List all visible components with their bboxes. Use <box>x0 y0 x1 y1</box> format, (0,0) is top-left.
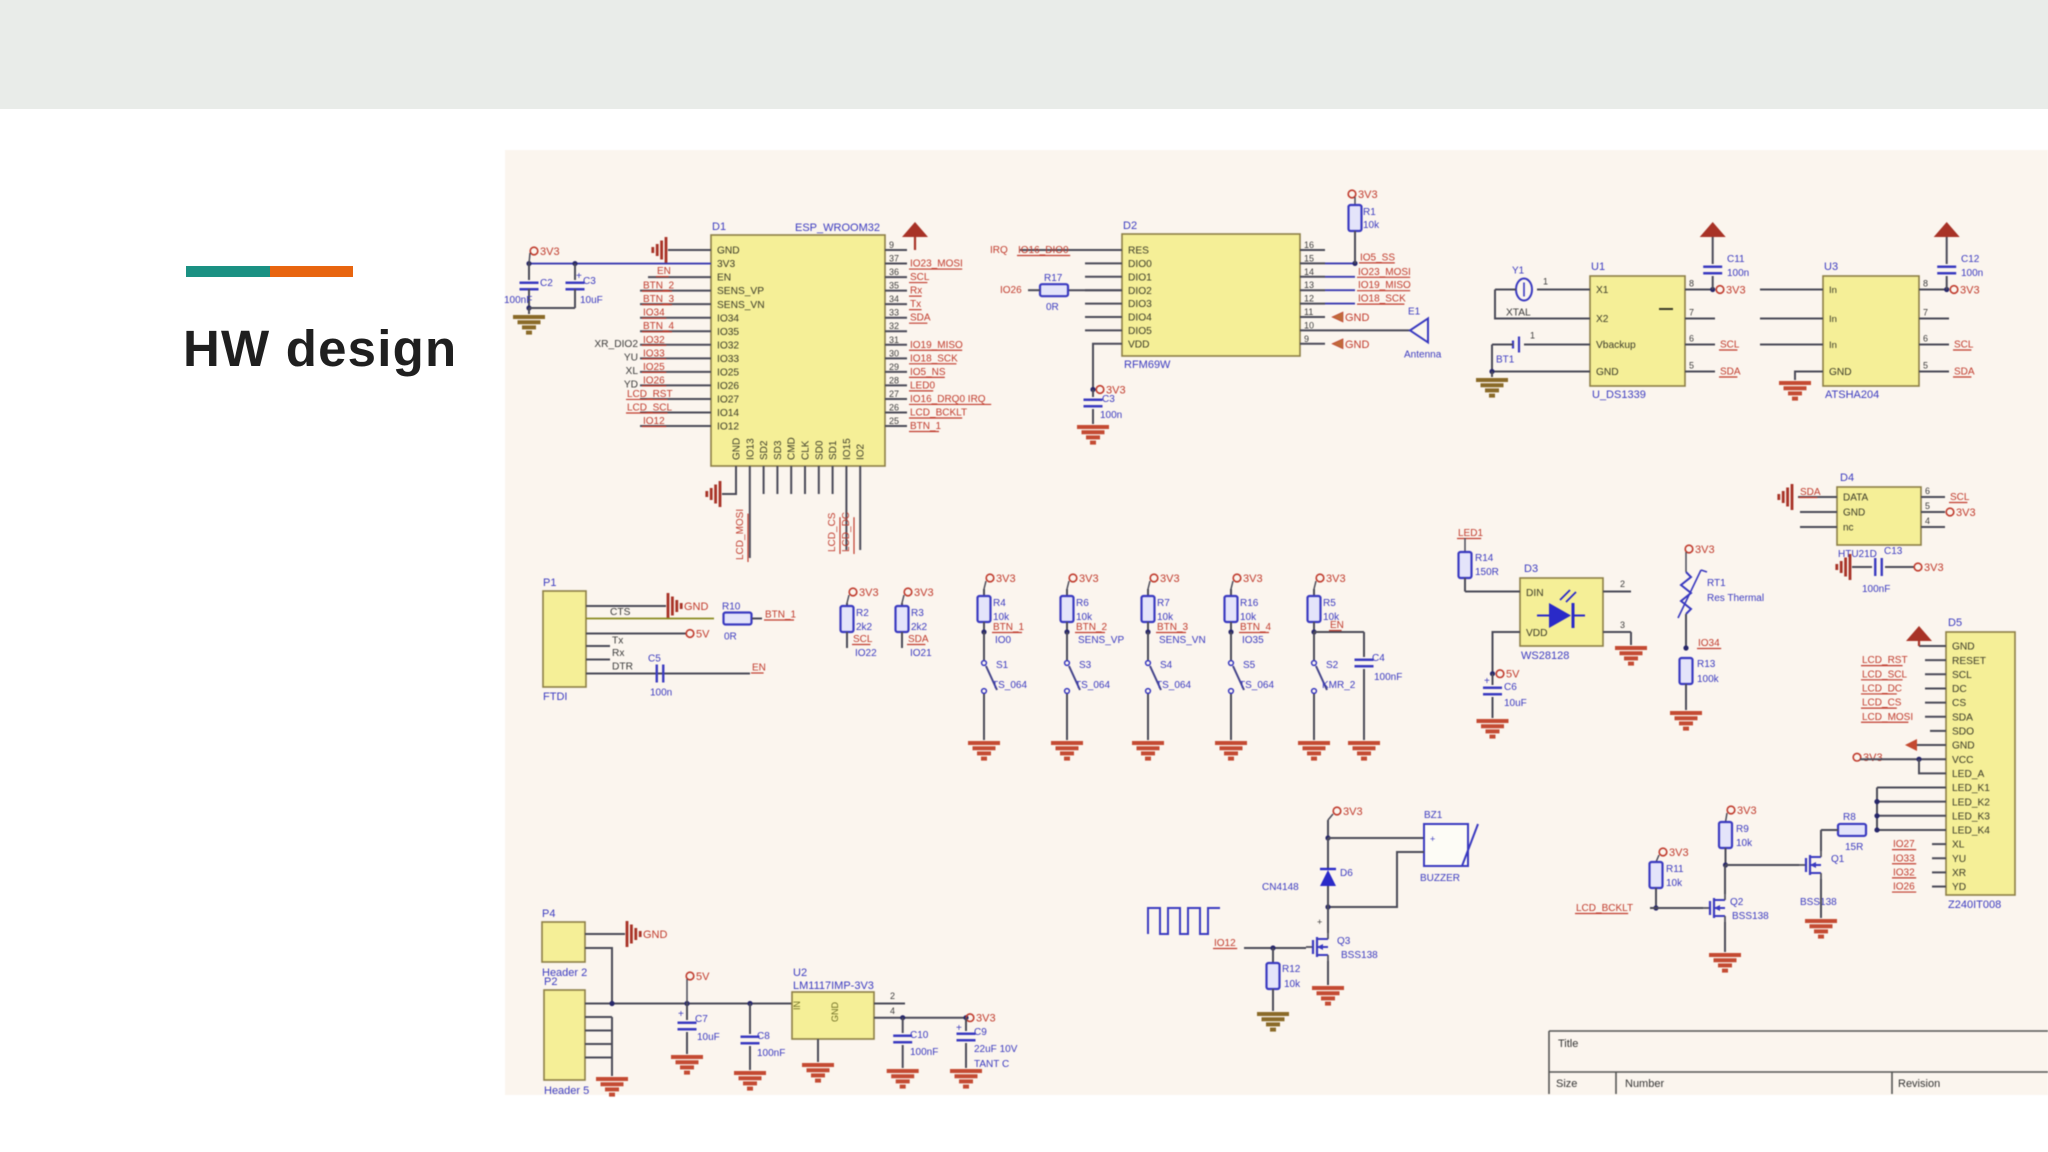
svg-text:LCD_DC: LCD_DC <box>841 512 852 552</box>
svg-text:IO14: IO14 <box>717 408 739 419</box>
svg-text:28: 28 <box>889 375 899 385</box>
svg-text:15R: 15R <box>1845 842 1863 853</box>
svg-text:BZ1: BZ1 <box>1424 810 1443 821</box>
svg-text:DATA: DATA <box>1843 493 1869 504</box>
svg-text:GND: GND <box>732 438 743 460</box>
svg-text:Q3: Q3 <box>1337 936 1351 947</box>
svg-text:LED1: LED1 <box>1458 528 1483 539</box>
svg-text:X2: X2 <box>1596 314 1609 325</box>
svg-text:VCC: VCC <box>1952 755 1974 766</box>
svg-text:29: 29 <box>889 362 899 372</box>
svg-text:BTN_2: BTN_2 <box>643 281 675 292</box>
svg-text:LCD_BCKLT: LCD_BCKLT <box>910 407 967 418</box>
svg-text:BTN_3: BTN_3 <box>643 294 675 305</box>
svg-text:30: 30 <box>889 348 899 358</box>
svg-text:Vbackup: Vbackup <box>1596 340 1636 351</box>
svg-text:X1: X1 <box>1596 285 1609 296</box>
svg-text:ATSHA204: ATSHA204 <box>1825 389 1879 401</box>
svg-text:RFM69W: RFM69W <box>1124 359 1171 371</box>
svg-text:IO26: IO26 <box>1000 285 1022 296</box>
svg-text:10uF: 10uF <box>1504 698 1527 709</box>
svg-text:CN4148: CN4148 <box>1262 882 1299 893</box>
svg-text:IO12: IO12 <box>1214 938 1236 949</box>
svg-text:14: 14 <box>1304 267 1314 277</box>
svg-text:YU: YU <box>624 352 638 363</box>
svg-text:SDO: SDO <box>1952 727 1974 738</box>
svg-text:XL: XL <box>626 366 639 377</box>
svg-text:SD1: SD1 <box>828 440 839 460</box>
svg-text:VDD: VDD <box>1128 339 1150 350</box>
svg-text:IO22: IO22 <box>855 648 877 659</box>
svg-text:3V3: 3V3 <box>1358 189 1378 201</box>
svg-text:GND: GND <box>1345 312 1370 324</box>
svg-text:TS_064: TS_064 <box>992 680 1027 691</box>
svg-text:C3: C3 <box>1102 394 1115 405</box>
svg-text:SDA: SDA <box>1720 367 1741 378</box>
svg-text:C6: C6 <box>1504 682 1517 693</box>
svg-text:Rx: Rx <box>612 648 624 659</box>
svg-text:Tx: Tx <box>910 299 921 310</box>
svg-text:3V3: 3V3 <box>1243 573 1263 585</box>
svg-text:R1: R1 <box>1363 207 1376 218</box>
svg-text:TS_064: TS_064 <box>1156 680 1191 691</box>
svg-text:IO32: IO32 <box>643 335 665 346</box>
svg-text:3V3: 3V3 <box>1924 562 1944 574</box>
svg-text:IO33: IO33 <box>717 354 739 365</box>
svg-text:10uF: 10uF <box>697 1032 720 1043</box>
svg-text:LED_K2: LED_K2 <box>1952 797 1990 808</box>
svg-text:XL: XL <box>1952 840 1965 851</box>
svg-text:IO26: IO26 <box>1893 882 1915 893</box>
svg-text:IO12: IO12 <box>643 416 665 427</box>
svg-text:27: 27 <box>889 389 899 399</box>
svg-text:5: 5 <box>1923 361 1928 371</box>
svg-text:100n: 100n <box>650 688 672 699</box>
svg-text:7: 7 <box>1689 308 1694 318</box>
svg-text:IO23_MOSI: IO23_MOSI <box>910 259 963 270</box>
svg-text:C10: C10 <box>910 1030 929 1041</box>
svg-text:GND: GND <box>643 929 668 941</box>
svg-text:10k: 10k <box>1363 220 1380 231</box>
svg-text:10k: 10k <box>1736 838 1753 849</box>
svg-text:3V3: 3V3 <box>1343 806 1363 818</box>
svg-text:LED_K3: LED_K3 <box>1952 811 1990 822</box>
svg-text:R16: R16 <box>1240 598 1259 609</box>
svg-text:9: 9 <box>1304 334 1309 344</box>
svg-text:+: + <box>576 271 582 282</box>
svg-text:S3: S3 <box>1079 660 1092 671</box>
svg-text:LCD_SCL: LCD_SCL <box>627 402 672 413</box>
svg-text:RT1: RT1 <box>1707 578 1726 589</box>
svg-text:IO35: IO35 <box>717 327 739 338</box>
svg-text:IO33: IO33 <box>1893 853 1915 864</box>
svg-text:34: 34 <box>889 294 899 304</box>
svg-text:S2: S2 <box>1326 660 1339 671</box>
svg-text:FTDI: FTDI <box>543 691 567 703</box>
svg-text:36: 36 <box>889 267 899 277</box>
svg-text:13: 13 <box>1304 280 1314 290</box>
svg-text:DIO3: DIO3 <box>1128 299 1152 310</box>
svg-text:IO19_MISO: IO19_MISO <box>910 340 963 351</box>
svg-text:22uF 10V: 22uF 10V <box>974 1044 1018 1055</box>
svg-text:YD: YD <box>1952 882 1966 893</box>
svg-text:IO16_DRQ0 IRQ: IO16_DRQ0 IRQ <box>910 394 986 405</box>
svg-text:LCD_DC: LCD_DC <box>1862 683 1902 694</box>
svg-text:DIO2: DIO2 <box>1128 286 1152 297</box>
svg-text:R17: R17 <box>1044 273 1063 284</box>
svg-text:SDA: SDA <box>1952 712 1973 723</box>
svg-text:8: 8 <box>1923 279 1928 289</box>
svg-text:GND: GND <box>1952 741 1975 752</box>
svg-text:C5: C5 <box>648 654 661 665</box>
svg-text:Q1: Q1 <box>1831 854 1845 865</box>
svg-text:R2: R2 <box>856 608 869 619</box>
svg-text:D2: D2 <box>1123 220 1137 232</box>
svg-text:+: + <box>1484 676 1490 687</box>
svg-text:DC: DC <box>1952 684 1967 695</box>
svg-text:CTS: CTS <box>610 607 631 618</box>
svg-text:LED_K4: LED_K4 <box>1952 826 1990 837</box>
svg-text:SDA: SDA <box>910 313 931 324</box>
svg-text:IO33: IO33 <box>643 348 665 359</box>
svg-text:SD3: SD3 <box>773 440 784 460</box>
svg-text:SDA: SDA <box>1954 367 1975 378</box>
svg-text:WS28128: WS28128 <box>1521 650 1569 662</box>
svg-text:3V3: 3V3 <box>996 573 1016 585</box>
svg-text:R14: R14 <box>1475 553 1494 564</box>
svg-text:LCD_MOSI: LCD_MOSI <box>1862 712 1913 723</box>
svg-text:IO27: IO27 <box>717 395 739 406</box>
svg-text:LCD_RST: LCD_RST <box>1862 655 1908 666</box>
svg-text:10: 10 <box>1304 320 1314 330</box>
svg-text:D4: D4 <box>1840 472 1854 484</box>
svg-text:BTN_3: BTN_3 <box>1157 622 1189 633</box>
svg-text:IO15: IO15 <box>842 438 853 460</box>
svg-text:IO32: IO32 <box>717 340 739 351</box>
svg-text:100nF: 100nF <box>1374 672 1402 683</box>
svg-text:LCD_MOSI: LCD_MOSI <box>735 509 746 560</box>
svg-text:GND: GND <box>1843 508 1865 519</box>
svg-text:VDD: VDD <box>1526 628 1548 639</box>
svg-text:3V3: 3V3 <box>1079 573 1099 585</box>
svg-text:100nF: 100nF <box>504 295 532 306</box>
svg-text:DIO5: DIO5 <box>1128 326 1152 337</box>
svg-text:16: 16 <box>1304 240 1314 250</box>
svg-text:EN: EN <box>752 663 766 674</box>
svg-text:35: 35 <box>889 281 899 291</box>
svg-text:2k2: 2k2 <box>856 622 873 633</box>
svg-text:100nF: 100nF <box>1862 584 1890 595</box>
svg-text:R7: R7 <box>1157 598 1170 609</box>
svg-text:GND: GND <box>1596 367 1619 378</box>
svg-text:150R: 150R <box>1475 567 1499 578</box>
svg-text:2: 2 <box>890 991 895 1001</box>
svg-text:IO25: IO25 <box>717 367 739 378</box>
svg-text:CLK: CLK <box>801 440 812 460</box>
svg-text:DTR: DTR <box>612 662 633 673</box>
svg-text:3V3: 3V3 <box>914 587 934 599</box>
svg-text:R6: R6 <box>1076 598 1089 609</box>
svg-text:GND: GND <box>717 246 740 257</box>
svg-text:5V: 5V <box>696 629 710 641</box>
svg-text:C11: C11 <box>1727 254 1745 265</box>
svg-text:nc: nc <box>1843 523 1854 534</box>
svg-text:EN: EN <box>717 273 731 284</box>
svg-text:S4: S4 <box>1160 660 1173 671</box>
svg-text:6: 6 <box>1923 334 1928 344</box>
svg-text:BSS138: BSS138 <box>1341 950 1378 961</box>
svg-text:SENS_VN: SENS_VN <box>717 300 765 311</box>
svg-text:IO23_MOSI: IO23_MOSI <box>1358 267 1411 278</box>
svg-text:EN: EN <box>1330 620 1344 631</box>
svg-text:+: + <box>1317 917 1322 927</box>
svg-text:10uF: 10uF <box>580 295 603 306</box>
svg-text:R9: R9 <box>1736 824 1749 835</box>
svg-text:LED_K1: LED_K1 <box>1952 783 1990 794</box>
svg-text:U2: U2 <box>793 967 807 979</box>
svg-text:SD0: SD0 <box>814 440 825 460</box>
svg-text:GND: GND <box>830 1002 840 1023</box>
svg-text:D5: D5 <box>1948 617 1962 629</box>
svg-text:100n: 100n <box>1961 268 1983 279</box>
svg-text:LCD_CS: LCD_CS <box>827 512 838 552</box>
svg-text:IO27: IO27 <box>1893 839 1915 850</box>
svg-text:R3: R3 <box>911 608 924 619</box>
svg-text:DIN: DIN <box>1526 588 1544 599</box>
svg-text:E1: E1 <box>1408 306 1421 317</box>
svg-text:+: + <box>1430 834 1435 844</box>
svg-text:IO13: IO13 <box>745 438 756 460</box>
svg-text:BTN_1: BTN_1 <box>765 610 797 621</box>
svg-text:U3: U3 <box>1824 261 1838 273</box>
svg-text:6: 6 <box>1689 334 1694 344</box>
svg-text:5: 5 <box>1689 361 1694 371</box>
svg-text:5V: 5V <box>1506 669 1520 681</box>
svg-text:3V3: 3V3 <box>540 246 560 258</box>
svg-text:37: 37 <box>889 254 899 264</box>
svg-text:IO32: IO32 <box>1893 867 1915 878</box>
svg-text:IO5_SS: IO5_SS <box>1360 252 1395 263</box>
svg-text:U_DS1339: U_DS1339 <box>1592 389 1646 401</box>
svg-text:BTN_2: BTN_2 <box>1076 622 1108 633</box>
svg-text:7: 7 <box>1923 308 1928 318</box>
svg-text:GND: GND <box>684 601 709 613</box>
svg-text:SDA: SDA <box>1800 487 1821 498</box>
svg-text:R8: R8 <box>1843 812 1856 823</box>
svg-text:IRQ: IRQ <box>990 245 1008 256</box>
svg-text:In: In <box>1829 340 1837 351</box>
svg-text:3V3: 3V3 <box>1669 847 1689 859</box>
svg-text:IN: IN <box>792 1001 802 1010</box>
svg-text:4: 4 <box>890 1006 895 1016</box>
svg-text:IO5_NS: IO5_NS <box>910 367 946 378</box>
svg-text:Antenna: Antenna <box>1404 349 1442 360</box>
svg-text:DIO1: DIO1 <box>1128 272 1152 283</box>
svg-text:3V3: 3V3 <box>1956 507 1976 519</box>
svg-text:D3: D3 <box>1524 563 1538 575</box>
svg-text:HTU21D: HTU21D <box>1838 549 1877 560</box>
svg-text:LM1117IMP-3V3: LM1117IMP-3V3 <box>793 980 874 992</box>
svg-text:3V3: 3V3 <box>859 587 879 599</box>
svg-text:TS_064: TS_064 <box>1075 680 1110 691</box>
svg-text:P1: P1 <box>543 577 556 589</box>
svg-text:IO2: IO2 <box>856 443 867 460</box>
svg-text:LCD_SCL: LCD_SCL <box>1862 669 1907 680</box>
svg-text:SENS_VP: SENS_VP <box>1078 635 1124 646</box>
svg-text:Number: Number <box>1625 1078 1664 1090</box>
svg-text:TANT C: TANT C <box>974 1059 1009 1070</box>
svg-text:SCL: SCL <box>1950 492 1970 503</box>
svg-text:3V3: 3V3 <box>717 259 735 270</box>
svg-text:C4: C4 <box>1372 653 1385 664</box>
svg-text:DIO4: DIO4 <box>1128 313 1152 324</box>
svg-text:SCL: SCL <box>853 634 873 645</box>
svg-text:S5: S5 <box>1243 660 1256 671</box>
svg-text:IO18_SCK: IO18_SCK <box>910 353 958 364</box>
svg-text:IO34: IO34 <box>1698 638 1720 649</box>
svg-text:100k: 100k <box>1697 674 1720 685</box>
svg-text:100n: 100n <box>1727 268 1749 279</box>
svg-text:3V3: 3V3 <box>1695 544 1715 556</box>
svg-text:0R: 0R <box>724 632 737 643</box>
svg-text:10k: 10k <box>1666 878 1683 889</box>
svg-text:In: In <box>1829 285 1837 296</box>
svg-text:U1: U1 <box>1591 261 1605 273</box>
svg-text:GND: GND <box>1952 642 1975 653</box>
svg-text:IO0: IO0 <box>995 635 1012 646</box>
svg-text:R10: R10 <box>722 602 741 613</box>
svg-text:IO34: IO34 <box>643 308 665 319</box>
svg-text:XR: XR <box>1952 868 1966 879</box>
svg-text:IO25: IO25 <box>643 362 665 373</box>
svg-text:R13: R13 <box>1697 659 1716 670</box>
svg-text:Res Thermal: Res Thermal <box>1707 593 1764 604</box>
svg-text:SDA: SDA <box>908 634 929 645</box>
svg-text:R12: R12 <box>1282 964 1301 975</box>
svg-text:3V3: 3V3 <box>1960 285 1980 297</box>
svg-text:IO26: IO26 <box>717 381 739 392</box>
svg-text:BT1: BT1 <box>1496 355 1515 366</box>
svg-text:LCD_RST: LCD_RST <box>627 389 673 400</box>
svg-text:1: 1 <box>1543 277 1548 287</box>
svg-text:15: 15 <box>1304 253 1314 263</box>
svg-text:BTN_1: BTN_1 <box>993 622 1025 633</box>
svg-text:BTN_4: BTN_4 <box>1240 622 1272 633</box>
svg-text:GND: GND <box>1829 367 1852 378</box>
svg-text:R4: R4 <box>993 598 1006 609</box>
svg-text:C8: C8 <box>757 1031 770 1042</box>
svg-text:C12: C12 <box>1961 254 1980 265</box>
svg-text:5V: 5V <box>696 971 710 983</box>
svg-text:S1: S1 <box>996 660 1009 671</box>
svg-text:Tx: Tx <box>612 636 623 647</box>
svg-text:12: 12 <box>1304 294 1314 304</box>
svg-text:YU: YU <box>1952 854 1966 865</box>
svg-text:100nF: 100nF <box>757 1048 785 1059</box>
svg-text:+: + <box>956 1023 962 1034</box>
svg-text:1: 1 <box>1530 331 1535 341</box>
svg-text:9: 9 <box>889 240 894 250</box>
svg-text:IO21: IO21 <box>910 648 932 659</box>
svg-text:3V3: 3V3 <box>1326 573 1346 585</box>
svg-text:P4: P4 <box>542 908 555 920</box>
svg-text:LED_A: LED_A <box>1952 769 1984 780</box>
svg-text:IO12: IO12 <box>717 422 739 433</box>
svg-text:6: 6 <box>1925 486 1930 496</box>
svg-text:Revision: Revision <box>1898 1078 1940 1090</box>
svg-text:3V3: 3V3 <box>976 1013 996 1025</box>
svg-text:Title: Title <box>1558 1038 1578 1050</box>
svg-text:Header 5: Header 5 <box>544 1085 589 1097</box>
svg-text:IO19_MISO: IO19_MISO <box>1358 280 1411 291</box>
svg-text:100n: 100n <box>1100 410 1122 421</box>
svg-text:25: 25 <box>889 416 899 426</box>
svg-text:C3: C3 <box>583 276 596 287</box>
svg-text:R11: R11 <box>1666 864 1684 875</box>
svg-text:LCD_CS: LCD_CS <box>1862 698 1902 709</box>
svg-text:D1: D1 <box>712 221 726 233</box>
svg-text:0R: 0R <box>1046 302 1059 313</box>
svg-text:CMD: CMD <box>787 437 798 460</box>
svg-text:3V3: 3V3 <box>1737 805 1757 817</box>
svg-text:SCL: SCL <box>1720 340 1740 351</box>
svg-text:26: 26 <box>889 402 899 412</box>
svg-text:SCL: SCL <box>910 272 930 283</box>
svg-text:100nF: 100nF <box>910 1047 938 1058</box>
svg-text:XR_DIO2: XR_DIO2 <box>594 339 638 350</box>
svg-text:RESET: RESET <box>1952 656 1986 667</box>
svg-text:D6: D6 <box>1340 868 1353 879</box>
svg-text:P2: P2 <box>544 976 557 988</box>
svg-text:BSS138: BSS138 <box>1800 897 1837 908</box>
svg-text:Y1: Y1 <box>1512 266 1525 277</box>
svg-text:5: 5 <box>1925 501 1930 511</box>
svg-text:CS: CS <box>1952 698 1966 709</box>
svg-text:XTAL: XTAL <box>1506 308 1531 319</box>
svg-text:3V3: 3V3 <box>1160 573 1180 585</box>
svg-text:2: 2 <box>1620 579 1625 589</box>
svg-text:C13: C13 <box>1884 546 1903 557</box>
svg-text:IO34: IO34 <box>717 313 739 324</box>
svg-text:Rx: Rx <box>910 286 922 297</box>
svg-text:IO16_DIO0: IO16_DIO0 <box>1018 245 1069 256</box>
svg-text:KMR_2: KMR_2 <box>1322 680 1356 691</box>
svg-text:C9: C9 <box>974 1027 987 1038</box>
svg-text:IO18_SCK: IO18_SCK <box>1358 294 1406 305</box>
svg-text:LCD_BCKLT: LCD_BCKLT <box>1576 903 1633 914</box>
svg-text:8: 8 <box>1689 279 1694 289</box>
svg-text:SCL: SCL <box>1954 340 1974 351</box>
svg-text:11: 11 <box>1304 307 1313 317</box>
svg-text:Q2: Q2 <box>1730 897 1744 908</box>
svg-text:3: 3 <box>1620 620 1625 630</box>
svg-text:4: 4 <box>1925 516 1930 526</box>
svg-text:33: 33 <box>889 308 899 318</box>
svg-text:+: + <box>678 1009 684 1020</box>
svg-text:SD2: SD2 <box>759 440 770 460</box>
svg-text:LED0: LED0 <box>910 380 935 391</box>
svg-text:RES: RES <box>1128 246 1149 257</box>
svg-text:BSS138: BSS138 <box>1732 911 1769 922</box>
svg-text:Z240IT008: Z240IT008 <box>1948 899 2001 911</box>
svg-text:R5: R5 <box>1323 598 1336 609</box>
svg-text:C2: C2 <box>540 278 553 289</box>
svg-text:10k: 10k <box>1284 979 1301 990</box>
svg-text:3V3: 3V3 <box>1726 285 1746 297</box>
svg-text:BUZZER: BUZZER <box>1420 873 1460 884</box>
svg-text:ESP_WROOM32: ESP_WROOM32 <box>795 222 880 234</box>
svg-text:SCL: SCL <box>1952 670 1972 681</box>
